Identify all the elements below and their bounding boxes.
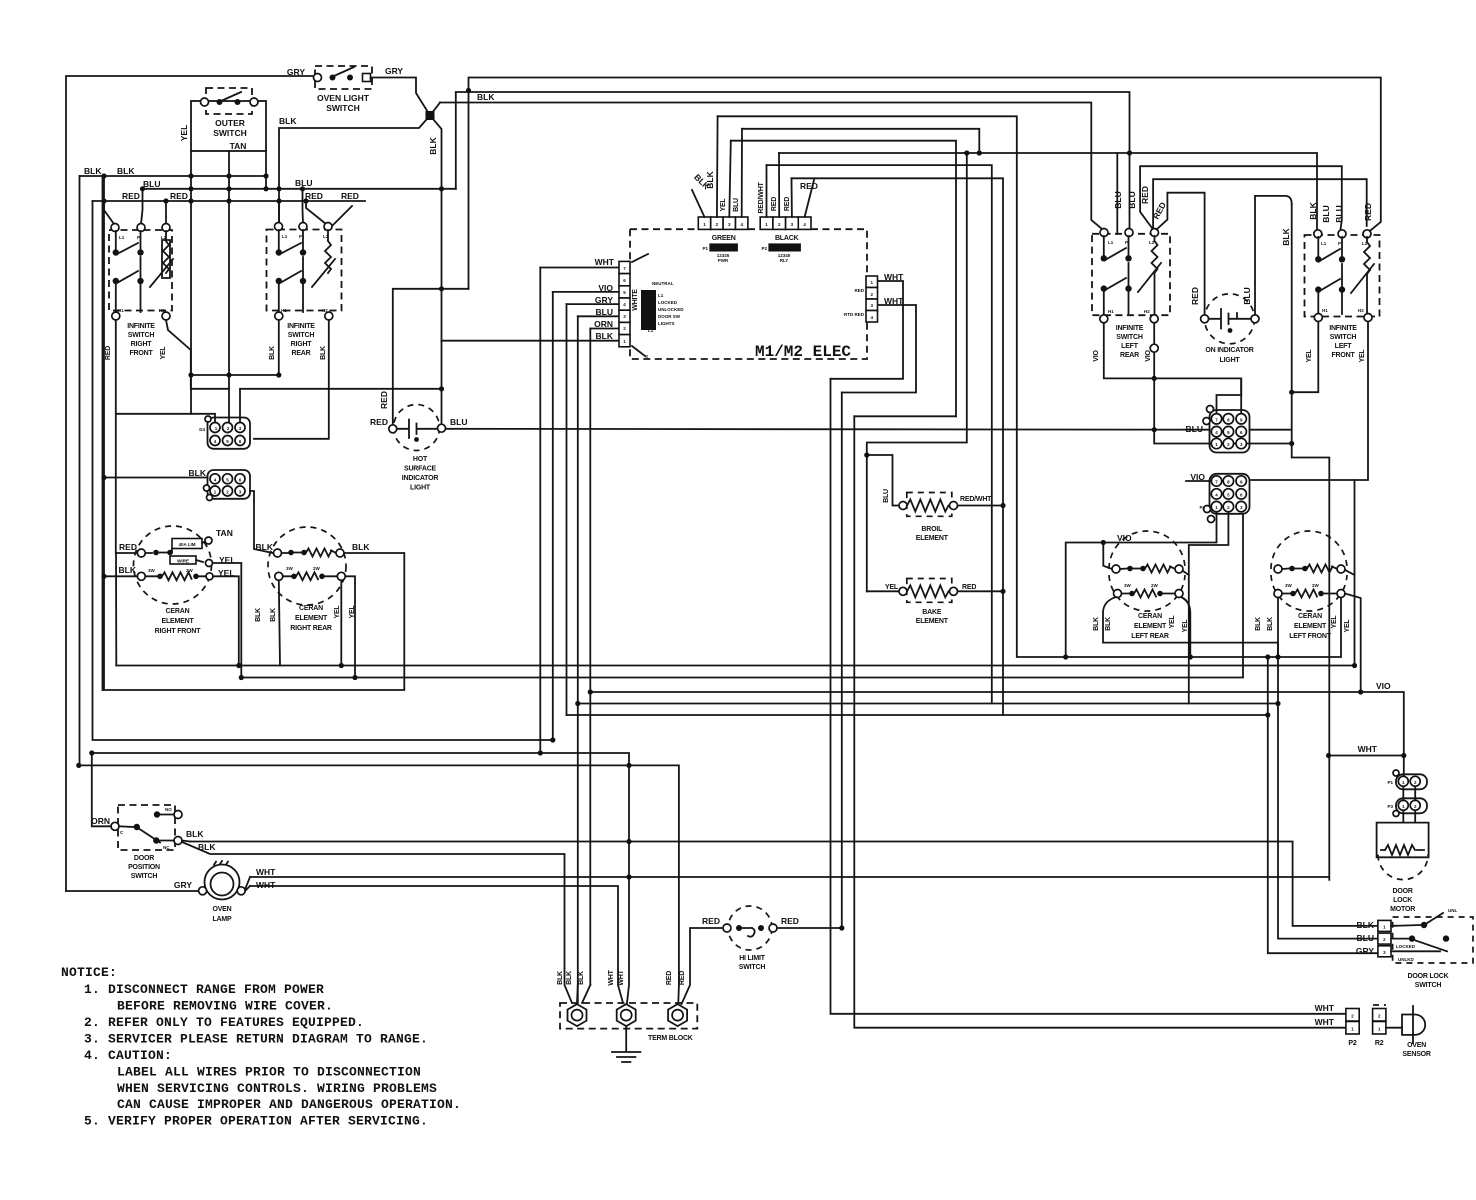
wire line F — [731, 141, 956, 417]
svg-text:H2: H2 — [1358, 308, 1364, 313]
svg-text:SWITCH: SWITCH — [213, 128, 247, 138]
svg-text:UNLKD: UNLKD — [1398, 957, 1414, 962]
svg-text:RED: RED — [702, 916, 720, 926]
svg-text:WHITE: WHITE — [632, 289, 639, 311]
wire BLU bus upper-left — [143, 188, 456, 190]
svg-text:YEL: YEL — [885, 584, 899, 591]
svg-text:GRY: GRY — [287, 67, 305, 77]
svg-text:BLU: BLU — [1321, 205, 1331, 222]
ceran element left front — [1271, 531, 1347, 640]
svg-text:RED: RED — [679, 971, 686, 985]
svg-text:CERAN: CERAN — [299, 605, 323, 612]
svg-text:LOCKED: LOCKED — [1396, 944, 1416, 949]
wire GREEN pin4 up (line E) — [741, 129, 743, 217]
svg-text:H1: H1 — [1322, 308, 1328, 313]
wire on light red — [1157, 193, 1205, 315]
svg-text:RED: RED — [170, 191, 188, 201]
wire BLK bus corner to v104 — [103, 176, 105, 690]
svg-text:LIGHT: LIGHT — [410, 485, 431, 492]
wire GRY top to X — [370, 78, 430, 116]
svg-text:BLK: BLK — [320, 346, 327, 360]
svg-text:RIGHT: RIGHT — [131, 341, 153, 348]
wire H9 lamp WHT — [250, 876, 1329, 878]
wire TAN from outer switch — [228, 151, 230, 423]
svg-text:REAR: REAR — [1120, 352, 1139, 359]
wire BLK long vertical right — [1292, 204, 1330, 880]
svg-text:CERAN: CERAN — [166, 608, 190, 615]
wire BLK pin1 of white conn — [442, 340, 620, 342]
wire blk terminal to v104 — [104, 575, 137, 577]
svg-text:UNLOCKED: UNLOCKED — [658, 307, 684, 312]
wire ORN pin — [590, 328, 619, 330]
wire bottom yel to H1 — [213, 576, 239, 665]
svg-text:RED: RED — [854, 288, 864, 293]
svg-text:WHT: WHT — [884, 272, 904, 282]
wire vio conn stub left — [1186, 480, 1211, 482]
svg-text:DOOR: DOOR — [134, 855, 154, 862]
hi limit switch — [723, 906, 777, 971]
svg-text:SWITCH: SWITCH — [1330, 334, 1357, 341]
wire lf yel top from conn — [1345, 480, 1355, 666]
svg-text:ELEMENT: ELEMENT — [295, 615, 328, 622]
svg-text:NEUTRAL: NEUTRAL — [652, 281, 674, 286]
wire staircase 1 top — [831, 281, 904, 379]
connector WHITE (left of M1/M2) — [619, 254, 684, 359]
wire rr bottom-left down to H1 — [279, 580, 280, 665]
svg-text:SWITCH: SWITCH — [1116, 334, 1143, 341]
svg-text:YEL: YEL — [1359, 349, 1366, 363]
svg-text:REAR: REAR — [291, 350, 310, 357]
wire ceran lf left down to door lock sw pin3 — [1268, 657, 1378, 953]
svg-text:BLK: BLK — [578, 971, 585, 985]
wire hi-limit left — [682, 928, 724, 1004]
term block — [560, 1003, 697, 1042]
svg-text:ELEMENT: ELEMENT — [916, 618, 949, 625]
svg-text:BLK: BLK — [1255, 617, 1262, 631]
svg-text:BLK: BLK — [1357, 920, 1375, 930]
svg-text:WHT: WHT — [608, 969, 615, 985]
svg-text:BLK: BLK — [1267, 617, 1274, 631]
wire outer switch right edge down — [265, 151, 267, 189]
svg-text:PWR: PWR — [718, 258, 729, 263]
wire rr bottom right to H2 — [345, 576, 355, 677]
wire y=388.8 left — [191, 375, 229, 389]
svg-text:RED/WHT: RED/WHT — [960, 496, 992, 503]
connector P3 — [1387, 798, 1427, 816]
wire BLK left vertical — [80, 176, 679, 1003]
wire door switch NC to H8 — [182, 841, 190, 842]
wire GREEN pin2 up (line D) — [716, 116, 719, 217]
connector GREEN — [698, 217, 748, 263]
svg-text:BLU: BLU — [1242, 287, 1252, 304]
svg-text:RED: RED — [800, 181, 818, 191]
svg-text:VIO: VIO — [1376, 681, 1391, 691]
connector right of M1/M2 (P5) — [844, 276, 878, 322]
svg-text:MOTOR: MOTOR — [1390, 906, 1415, 913]
wire H y=413.8 — [116, 413, 191, 415]
wire bake right — [958, 590, 1004, 592]
svg-text:LEFT: LEFT — [1335, 343, 1353, 350]
svg-text:ORN: ORN — [91, 816, 110, 826]
svg-text:VIO: VIO — [598, 283, 613, 293]
wire BLU bus to P rf — [141, 189, 143, 224]
wire y=388.8 right — [240, 389, 442, 423]
wire H10 lamp WHT2 — [250, 886, 623, 1003]
wire ORN line H7b — [92, 753, 629, 1003]
wire H2 rf down diag — [166, 320, 191, 375]
wire H2 lr VIO — [1154, 323, 1292, 444]
svg-text:BLK: BLK — [477, 92, 495, 102]
wire GREEN pin1 stub BLK — [692, 190, 705, 217]
svg-text:L1: L1 — [648, 328, 654, 333]
junction X — [426, 111, 435, 120]
wire conn row1 jog — [1217, 378, 1242, 413]
svg-text:M1/M2 ELEC: M1/M2 ELEC — [755, 343, 851, 361]
svg-text:RED: RED — [962, 584, 976, 591]
infinite switch right rear — [267, 223, 342, 360]
svg-text:CAN CAUSE IMPROPER AND DANGERO: CAN CAUSE IMPROPER AND DANGEROUS OPERATI… — [117, 1097, 461, 1112]
on indicator light — [1201, 294, 1259, 364]
svg-text:INFINITE: INFINITE — [1329, 325, 1357, 332]
ceran element left rear — [1109, 531, 1185, 640]
svg-text:2. REFER ONLY TO FEATURES EQUI: 2. REFER ONLY TO FEATURES EQUIPPED. — [84, 1015, 364, 1030]
connector D4 — [199, 416, 250, 449]
wire y=375 — [191, 374, 279, 376]
svg-text:INFINITE: INFINITE — [127, 323, 155, 330]
notice text — [61, 965, 461, 1129]
svg-text:BLK: BLK — [566, 971, 573, 985]
svg-text:RIGHT FRONT: RIGHT FRONT — [155, 628, 202, 635]
svg-text:BLU: BLU — [596, 307, 613, 317]
wire line A top — [469, 78, 1381, 289]
svg-text:RED: RED — [370, 417, 388, 427]
wire ceran lf bottom box — [1278, 598, 1341, 658]
svg-text:OVEN: OVEN — [212, 906, 231, 913]
svg-text:LOCK: LOCK — [1393, 897, 1412, 904]
wire BLK conn feed — [104, 477, 208, 479]
svg-text:YEL: YEL — [1182, 619, 1189, 633]
svg-text:TAN: TAN — [230, 141, 247, 151]
svg-text:P1: P1 — [1387, 780, 1393, 785]
svg-text:FRONT: FRONT — [1331, 352, 1355, 359]
svg-text:5. VERIFY PROPER OPERATION AFT: 5. VERIFY PROPER OPERATION AFTER SERVICI… — [84, 1114, 428, 1129]
wire H1 rf down — [115, 320, 117, 553]
svg-text:INDICATOR: INDICATOR — [402, 475, 439, 482]
svg-text:H2: H2 — [159, 308, 165, 313]
svg-text:GRY: GRY — [385, 66, 403, 76]
svg-text:LIGHTS: LIGHTS — [658, 321, 675, 326]
svg-text:RED: RED — [771, 197, 778, 211]
svg-text:LABEL ALL WIRES PRIOR TO DISCO: LABEL ALL WIRES PRIOR TO DISCONNECTION — [117, 1065, 421, 1080]
connector P1 — [1387, 770, 1427, 789]
wire YEL from outer switch — [191, 151, 215, 423]
wire X to line C — [430, 103, 440, 116]
wire segment y166 right cluster — [1140, 166, 1342, 229]
wire GREEN pin3 up (line F) — [729, 141, 731, 217]
svg-text:H1: H1 — [1108, 309, 1114, 314]
wire v5 ORN to term block — [589, 329, 591, 986]
svg-text:WHT: WHT — [595, 257, 615, 267]
svg-text:H2: H2 — [322, 308, 328, 313]
svg-text:P2: P2 — [1348, 1040, 1356, 1047]
svg-text:VIO: VIO — [1117, 533, 1132, 543]
svg-text:RLY: RLY — [780, 258, 789, 263]
svg-text:SWITCH: SWITCH — [739, 964, 766, 971]
svg-text:L1: L1 — [658, 293, 664, 298]
wire line C BLK — [440, 103, 1102, 230]
svg-text:3. SERVICER PLEASE RETURN DIAG: 3. SERVICER PLEASE RETURN DIAGRAM TO RAN… — [84, 1032, 428, 1047]
svg-text:2W: 2W — [186, 568, 194, 573]
wire H1 lower bus — [116, 665, 1353, 667]
svg-text:P: P — [1338, 241, 1341, 246]
wire line I — [792, 178, 1004, 715]
wire WHT door lock — [1329, 755, 1404, 757]
svg-text:YEL: YEL — [160, 346, 167, 360]
wire X to BLK left bus — [279, 116, 430, 223]
svg-text:SWITCH: SWITCH — [128, 332, 155, 339]
svg-text:BLU: BLU — [1186, 424, 1203, 434]
wire v4 BLU to term block — [577, 316, 579, 1003]
hot surface indicator light — [389, 405, 446, 492]
svg-text:2W: 2W — [313, 566, 321, 571]
svg-text:RED: RED — [781, 916, 799, 926]
svg-text:TERM BLOCK: TERM BLOCK — [648, 1035, 693, 1042]
svg-text:P3: P3 — [1387, 804, 1393, 809]
svg-text:YEL: YEL — [1331, 615, 1338, 629]
svg-text:BLK: BLK — [596, 331, 614, 341]
svg-text:YEL: YEL — [179, 125, 189, 142]
wire BLU pin — [578, 315, 619, 317]
wire BLK trunk from X junction — [430, 116, 442, 425]
wire branch to hot surface light — [393, 289, 469, 425]
wire v4 branch H4 — [578, 703, 1278, 705]
svg-text:CERAN: CERAN — [1138, 613, 1162, 620]
svg-text:RED: RED — [105, 346, 112, 360]
svg-text:P2: P2 — [761, 246, 767, 251]
wire line G BLK — [779, 153, 1317, 230]
svg-text:POSITION: POSITION — [128, 864, 160, 871]
svg-text:WHT: WHT — [256, 867, 276, 877]
svg-text:RED: RED — [379, 391, 389, 409]
svg-text:RED: RED — [1190, 287, 1200, 305]
svg-text:BLU: BLU — [143, 179, 160, 189]
svg-text:2W: 2W — [1151, 583, 1159, 588]
wire ceran lr box — [1103, 597, 1278, 643]
wire ceran rr top right to H3a — [103, 176, 405, 690]
svg-text:WHT: WHT — [1315, 1017, 1335, 1027]
svg-text:BLK: BLK — [557, 971, 564, 985]
svg-text:WIRE: WIRE — [177, 559, 189, 564]
svg-text:LAMP: LAMP — [212, 916, 232, 923]
wire H8 door BLK — [190, 842, 1378, 926]
svg-text:BEFORE REMOVING WIRE COVER.: BEFORE REMOVING WIRE COVER. — [117, 999, 333, 1014]
svg-text:RED: RED — [666, 971, 673, 985]
svg-text:BLK: BLK — [189, 468, 207, 478]
wire H2 lf — [1250, 322, 1369, 481]
svg-text:BLK: BLK — [428, 136, 438, 154]
svg-text:ELEMENT: ELEMENT — [1134, 623, 1167, 630]
wire lamp right to WHT lines — [245, 877, 250, 891]
door position switch — [111, 805, 182, 880]
wire H1 rr down — [278, 320, 280, 375]
svg-text:3W: 3W — [286, 566, 294, 571]
svg-text:BLK: BLK — [269, 346, 276, 360]
wire term blk feeders diag — [577, 985, 590, 1003]
svg-text:S: S — [645, 354, 648, 359]
broil element — [899, 493, 958, 543]
svg-text:NC: NC — [163, 845, 170, 850]
wire BLACK pin4 diag (to line I) — [805, 180, 814, 217]
svg-text:H1: H1 — [118, 308, 124, 313]
svg-text:L1: L1 — [119, 235, 125, 240]
svg-text:RED: RED — [1140, 186, 1150, 204]
svg-text:BLU: BLU — [733, 198, 740, 212]
outer switch — [179, 88, 266, 151]
svg-text:R2: R2 — [1375, 1040, 1384, 1047]
svg-text:HI LIMIT: HI LIMIT — [739, 955, 766, 962]
svg-text:ORN: ORN — [594, 319, 613, 329]
wire rf box left edge — [115, 553, 117, 666]
wire v5 branch H3 VIO — [590, 692, 1404, 776]
wire v3 GRY — [566, 304, 568, 715]
wire v1 WHT — [539, 268, 541, 754]
infinite switch left front — [1305, 230, 1380, 363]
ground — [612, 1026, 640, 1062]
svg-text:ELEMENT: ELEMENT — [916, 535, 949, 542]
svg-text:CERAN: CERAN — [1298, 613, 1322, 620]
oven light switch — [314, 66, 373, 113]
wire staircase 3 top — [854, 415, 956, 417]
wire segment y179 right cluster — [1153, 179, 1367, 228]
wire BLK conn to ceran rr — [250, 491, 273, 553]
svg-text:BLK: BLK — [256, 542, 274, 552]
svg-text:D4: D4 — [199, 427, 205, 432]
svg-text:YEL: YEL — [1169, 615, 1176, 629]
svg-text:LEFT REAR: LEFT REAR — [1131, 633, 1169, 640]
svg-text:GRY: GRY — [595, 295, 613, 305]
wire P1 to P3 — [1403, 786, 1415, 800]
wire line H — [767, 165, 992, 703]
svg-text:RED: RED — [119, 542, 137, 552]
bake element — [899, 579, 958, 626]
wire RED to L1 rr — [278, 201, 281, 223]
svg-text:BLK: BLK — [279, 116, 297, 126]
svg-text:YEL: YEL — [1344, 619, 1351, 633]
svg-text:BAKE: BAKE — [922, 609, 942, 616]
M1/M2 ELEC dashed box — [630, 229, 867, 359]
svg-text:OUTER: OUTER — [215, 118, 245, 128]
9-pin connector VIO — [1204, 474, 1250, 523]
svg-text:WHEN SERVICING CONTROLS. WIRIN: WHEN SERVICING CONTROLS. WIRING PROBLEMS — [117, 1081, 437, 1096]
wire H2 lower bus — [241, 514, 1243, 678]
svg-text:WHT: WHT — [1315, 1003, 1335, 1013]
wire door switch BLK 2 to term block — [182, 842, 572, 1003]
svg-text:RED: RED — [784, 197, 791, 211]
svg-text:P: P — [1125, 240, 1128, 245]
svg-text:GREEN: GREEN — [712, 235, 736, 242]
wire sensor WHT 1 — [831, 379, 1346, 1014]
wire G to lr box mid — [1116, 153, 1118, 234]
wire RED to L2 rr — [306, 201, 352, 226]
svg-text:2W: 2W — [1312, 583, 1320, 588]
svg-text:DOOR LOCK: DOOR LOCK — [1408, 973, 1449, 980]
svg-text:YEL: YEL — [1306, 349, 1313, 363]
svg-text:BLK: BLK — [1105, 617, 1112, 631]
svg-text:4. CAUTION:: 4. CAUTION: — [84, 1048, 172, 1063]
svg-text:WHT: WHT — [884, 296, 904, 306]
oven lamp — [199, 861, 246, 923]
svg-text:HOT: HOT — [413, 456, 428, 463]
wire H2 rr down to D4 — [254, 320, 329, 439]
svg-text:SWITCH: SWITCH — [326, 103, 360, 113]
svg-text:BLK: BLK — [705, 170, 715, 188]
svg-text:RED: RED — [122, 191, 140, 201]
svg-text:SURFACE: SURFACE — [404, 466, 437, 473]
wire ceran lf bottom yel to VIO line — [1345, 594, 1361, 693]
svg-text:YEL: YEL — [720, 198, 727, 212]
svg-text:ELEMENT: ELEMENT — [1294, 623, 1327, 630]
svg-text:L1: L1 — [1321, 241, 1327, 246]
connector BLK 6pin — [189, 468, 250, 501]
infinite switch right front — [105, 224, 173, 361]
svg-text:GRY: GRY — [1356, 946, 1374, 956]
svg-text:P: P — [137, 235, 140, 240]
svg-text:GRY: GRY — [174, 880, 192, 890]
svg-text:TAN: TAN — [216, 528, 233, 538]
svg-text:H2: H2 — [1144, 309, 1150, 314]
svg-text:BLU: BLU — [450, 417, 467, 427]
svg-text:BLK: BLK — [119, 565, 137, 575]
svg-text:DOOR SW: DOOR SW — [658, 314, 681, 319]
svg-text:INFINITE: INFINITE — [1116, 325, 1144, 332]
wire RED to L2 rf — [165, 201, 167, 224]
wire RED bus upper-left — [93, 200, 366, 202]
wire BLACK pin3 up (line I) — [791, 178, 793, 217]
wire staircase 2 top — [842, 305, 916, 393]
svg-text:3W: 3W — [1124, 583, 1132, 588]
svg-text:40A LIM: 40A LIM — [178, 542, 195, 547]
wire top yel to H2 — [213, 563, 242, 678]
infinite switch left rear — [1092, 229, 1170, 362]
wire BLK bus upper-left — [80, 175, 267, 177]
svg-text:LEFT: LEFT — [1121, 343, 1139, 350]
wire H1 lr VIO — [1104, 323, 1241, 414]
svg-text:BLK: BLK — [117, 166, 135, 176]
svg-text:BLK: BLK — [1093, 617, 1100, 631]
svg-text:1. DISCONNECT RANGE FROM POWER: 1. DISCONNECT RANGE FROM POWER — [84, 982, 324, 997]
svg-text:BLK: BLK — [1281, 227, 1291, 245]
svg-text:BLU: BLU — [1357, 933, 1374, 943]
svg-text:P: P — [299, 234, 302, 239]
wire ORN from door switch — [92, 753, 111, 826]
wire ceran lr bottom right drop — [1181, 597, 1190, 657]
wire broil feed — [867, 153, 967, 591]
oven sensor — [1346, 1005, 1431, 1058]
svg-text:INFINITE: INFINITE — [287, 323, 315, 330]
wire staircase 2 — [841, 393, 843, 929]
svg-text:LOCKED: LOCKED — [658, 300, 678, 305]
wire BLU bus to P rr — [302, 189, 305, 223]
wire BLACK pin1 up (line H) — [766, 165, 768, 217]
wire left border GRY — [66, 76, 317, 891]
wire RED to L1 rf — [104, 201, 114, 224]
svg-text:NO: NO — [165, 807, 172, 812]
svg-text:BLK: BLK — [1308, 201, 1318, 219]
svg-text:OVEN: OVEN — [1407, 1042, 1426, 1049]
svg-text:BLU: BLU — [1127, 191, 1137, 208]
svg-text:OVEN LIGHT: OVEN LIGHT — [317, 93, 370, 103]
wire line E — [742, 129, 979, 153]
